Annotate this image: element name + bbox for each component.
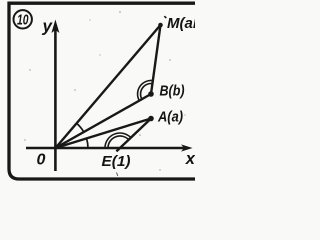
svg-text:M(ab): M(ab): [167, 15, 195, 32]
svg-text:y: y: [42, 17, 54, 36]
y-axis line: [54, 28, 57, 171]
stray mark below E label: [117, 173, 118, 177]
x-axis line: [26, 147, 185, 150]
ray O to B: [56, 94, 152, 148]
svg-text:E(1): E(1): [102, 153, 131, 170]
y-axis arrowhead: [51, 20, 59, 34]
stray mark near M label: [164, 16, 166, 18]
page frame border: [9, 3, 195, 179]
point M dot: [158, 23, 163, 28]
outer angle arc at B: [138, 80, 153, 100]
point B dot: [148, 91, 154, 97]
outer angle arc at E: [105, 133, 131, 148]
inner angle arc at E: [108, 136, 129, 148]
page background: [0, 0, 195, 187]
ray O to M: [56, 25, 161, 148]
svg-text:B(b): B(b): [160, 83, 185, 100]
svg-text:x: x: [185, 150, 195, 168]
svg-text:0: 0: [37, 152, 46, 169]
inner angle arc at B: [141, 84, 153, 100]
x-axis arrowhead: [181, 144, 193, 151]
angle arc at O between x-axis and ray OA: [87, 138, 89, 148]
ray O to A: [56, 119, 152, 149]
scan speckles: [24, 11, 185, 171]
svg-text:A(a): A(a): [157, 109, 183, 126]
angle arc at O between ray OB and ray OM: [77, 123, 84, 132]
segment E to A: [116, 119, 151, 152]
segment M to B: [151, 25, 161, 94]
svg-text:10: 10: [17, 13, 29, 29]
point A dot: [148, 116, 154, 122]
problem number badge circle: [14, 10, 32, 28]
